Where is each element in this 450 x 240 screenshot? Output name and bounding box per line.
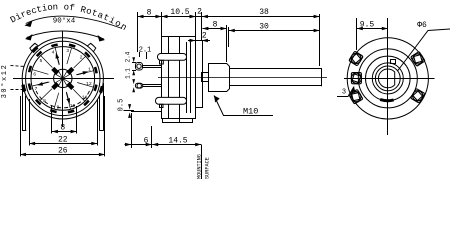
right side leg xyxy=(103,83,105,131)
svg-text:2: 2 xyxy=(197,8,202,17)
dim 26 xyxy=(20,154,105,156)
M10 leader xyxy=(214,96,273,116)
rotation direction arc with arrow xyxy=(26,16,122,28)
svg-text:8: 8 xyxy=(60,124,65,133)
mounting ear 45deg xyxy=(87,43,96,52)
neck xyxy=(202,73,209,82)
svg-text:10.5: 10.5 xyxy=(170,8,189,17)
dim 8 (bushing) xyxy=(202,28,226,30)
terminal lug top xyxy=(158,54,187,61)
bold rim marks xyxy=(23,47,102,93)
svg-text:n: n xyxy=(52,2,58,12)
svg-text:30: 30 xyxy=(259,23,269,32)
svg-text:14.5: 14.5 xyxy=(168,137,187,146)
svg-text:12: 12 xyxy=(86,81,92,87)
dim 2 (top row) xyxy=(195,16,209,18)
svg-text:8: 8 xyxy=(147,9,152,18)
dashed rotor arc xyxy=(36,91,89,108)
mounting ear 135deg xyxy=(30,43,39,52)
svg-text:3: 3 xyxy=(342,89,346,97)
bold contact ticks ring xyxy=(29,45,97,113)
hub circle xyxy=(54,69,72,87)
dim 6 xyxy=(125,144,152,146)
svg-text:0.5: 0.5 xyxy=(118,99,126,112)
seating plane line xyxy=(131,111,162,113)
extension lines bottom left view xyxy=(51,106,53,134)
dim 2.1 ticks xyxy=(139,52,141,57)
svg-text:2.1: 2.1 xyxy=(139,47,152,55)
dim 38 xyxy=(202,16,320,18)
mounting plate xyxy=(196,41,203,108)
svg-text:22: 22 xyxy=(58,136,68,145)
svg-text:38: 38 xyxy=(259,8,269,17)
dim 10.5 xyxy=(162,16,196,18)
svg-text:2.4: 2.4 xyxy=(125,51,132,62)
svg-text:SURFACE: SURFACE xyxy=(205,157,211,179)
thread ring xyxy=(375,66,400,91)
svg-text:1.1: 1.1 xyxy=(125,68,132,79)
30x12 leader dashes xyxy=(11,66,26,67)
bottom extension lines xyxy=(131,113,133,148)
svg-text:3: 3 xyxy=(66,48,69,54)
hub wedges xyxy=(53,68,73,88)
svg-text:9.5: 9.5 xyxy=(360,21,375,30)
top extension lines xyxy=(137,12,139,52)
svg-text:9: 9 xyxy=(56,104,59,110)
radial spokes xyxy=(32,48,94,110)
outer body circle xyxy=(22,38,103,119)
terminal numbers 1-12 xyxy=(33,48,92,110)
svg-text:Φ6: Φ6 xyxy=(417,21,427,30)
solder lugs xyxy=(349,51,363,66)
svg-text:5: 5 xyxy=(40,58,43,64)
hub spokes xyxy=(54,69,72,87)
svg-text:2: 2 xyxy=(202,32,207,41)
dim 8 (pin) xyxy=(138,16,162,18)
dim 9.5 xyxy=(356,18,358,50)
svg-text:6: 6 xyxy=(144,137,149,146)
svg-text:8: 8 xyxy=(213,21,218,30)
dim 22 xyxy=(29,143,97,145)
nut ring xyxy=(366,56,411,101)
center lines xyxy=(62,31,64,128)
dim 8 (left view) xyxy=(52,131,77,133)
dim 14.5 xyxy=(152,144,201,146)
bushing ring xyxy=(372,63,403,94)
mounting surface extension line xyxy=(201,145,203,179)
bushing xyxy=(209,64,230,92)
shaft xyxy=(230,68,322,70)
rear center lines xyxy=(344,78,435,80)
svg-text:1: 1 xyxy=(88,67,91,73)
dia6 leader xyxy=(398,29,450,71)
left side leg xyxy=(22,83,24,131)
outer circle xyxy=(347,38,428,119)
dim 2 (plate) xyxy=(188,40,195,42)
shaft centerline xyxy=(158,77,327,79)
terminal pin 2 tab xyxy=(135,83,142,88)
svg-text:4: 4 xyxy=(52,49,55,55)
contact circle xyxy=(31,47,95,111)
dim 30 xyxy=(229,30,320,32)
svg-text:26: 26 xyxy=(58,147,68,156)
key notch xyxy=(391,60,396,64)
body outline xyxy=(162,37,196,119)
svg-text:MOUNTING: MOUNTING xyxy=(196,154,202,179)
svg-text:8: 8 xyxy=(43,98,46,104)
terminal pin 1 tab xyxy=(136,63,143,71)
90x4 dimension arc xyxy=(27,31,105,39)
bottom flange xyxy=(163,119,193,123)
step circle xyxy=(358,49,417,108)
mid circle xyxy=(26,41,100,115)
svg-text:90°x4: 90°x4 xyxy=(53,17,76,26)
label: Direction of Rotation (curved) xyxy=(9,2,129,33)
bold arc rear xyxy=(380,99,393,100)
pole wiper arrows xyxy=(37,53,88,104)
svg-text:f: f xyxy=(69,3,76,14)
svg-text:11: 11 xyxy=(82,95,88,101)
svg-text:10: 10 xyxy=(70,103,76,109)
svg-text:M10: M10 xyxy=(243,107,258,117)
svg-text:7: 7 xyxy=(35,86,38,92)
terminal lug bottom xyxy=(156,97,187,104)
svg-text:6: 6 xyxy=(33,71,36,77)
shaft D-circle xyxy=(378,69,394,88)
svg-text:2: 2 xyxy=(80,54,83,60)
3 leader xyxy=(337,87,354,97)
svg-text:30°x12: 30°x12 xyxy=(0,64,9,99)
